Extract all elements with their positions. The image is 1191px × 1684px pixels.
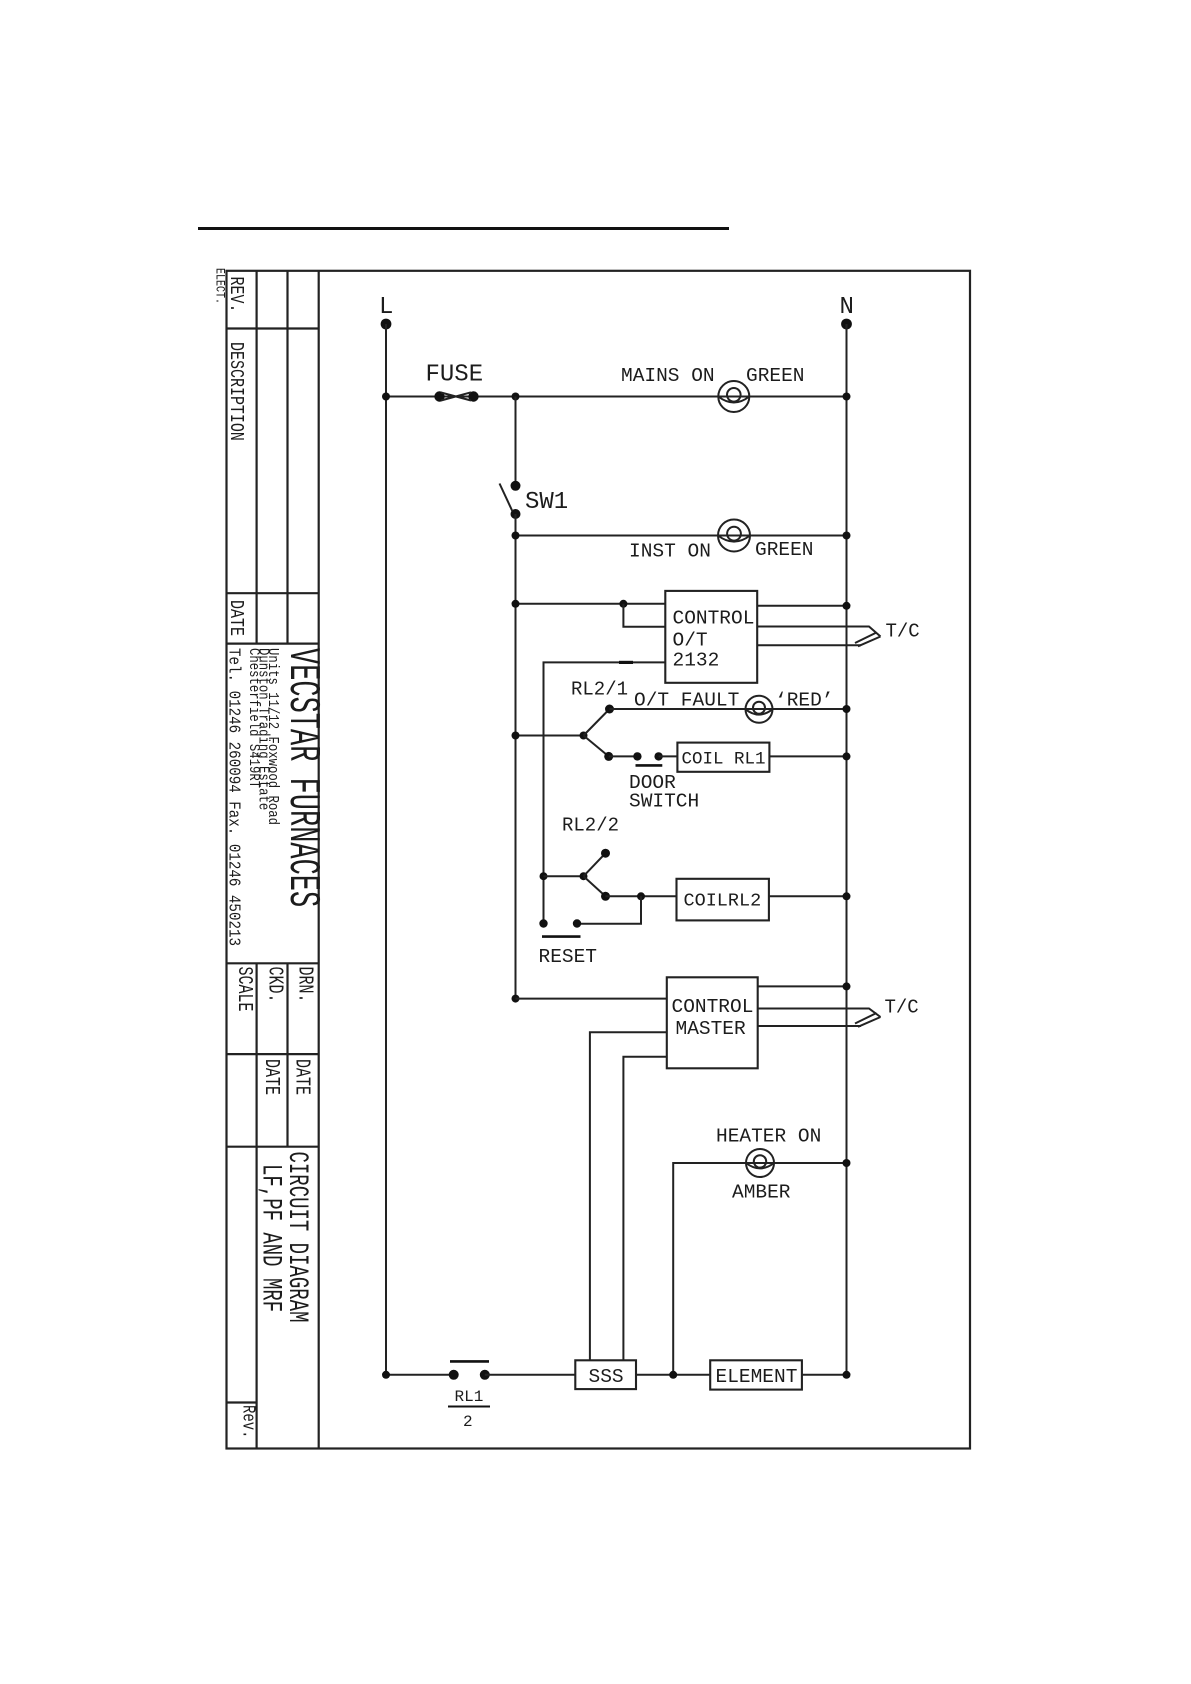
thermocouple connector T/C lower: [758, 1009, 881, 1027]
wire mains top line: [386, 396, 847, 398]
wire RL1 to SSS: [485, 1374, 576, 1376]
svg-text:INST ON: INST ON: [629, 541, 711, 563]
svg-text:RL1: RL1: [455, 1388, 484, 1406]
wire heater lamp line: [673, 1163, 846, 1375]
junction mains-N: [843, 393, 851, 401]
junction sw1rail-inst: [512, 532, 520, 540]
junction heater-N: [843, 1159, 851, 1167]
contact RL1/2: [449, 1361, 490, 1379]
svg-text:GREEN: GREEN: [755, 539, 814, 561]
svg-text:CKD.: CKD.: [263, 967, 286, 1003]
wire SSS to element: [636, 1374, 710, 1376]
svg-text:RL2/2: RL2/2: [562, 815, 619, 837]
wire RL2/2 throw to coil RL2: [606, 895, 677, 897]
lamp INST ON symbol: [718, 520, 750, 552]
junction controlot feed tee: [619, 600, 627, 608]
svg-text:HEATER ON: HEATER ON: [716, 1126, 821, 1148]
wire reset loop: [577, 896, 641, 923]
title block horizontals: [227, 329, 319, 1403]
svg-text:DESCRIPTION: DESCRIPTION: [224, 342, 245, 441]
drawing frame: [227, 271, 971, 1449]
svg-text:O/T: O/T: [673, 630, 708, 652]
controller U2 CONTROL MASTER box: [667, 977, 758, 1068]
junction sw1rail-rl21: [512, 732, 520, 740]
svg-text:Tel. 01246 260094 Fax. 01246: Tel. 01246 260094 Fax. 01246 450213: [224, 648, 244, 946]
wire master output 2 down to SSS: [623, 1057, 666, 1361]
svg-text:DATE: DATE: [259, 1059, 282, 1095]
lamp HEATER ON symbol: [746, 1149, 774, 1177]
svg-text:SW1: SW1: [525, 489, 568, 516]
svg-text:REV.: REV.: [224, 277, 245, 313]
wire master output 1 down to SSS: [590, 1032, 667, 1360]
junction L-mains: [382, 393, 390, 401]
junction mains-SW1drop: [512, 393, 520, 401]
wire controlot to N: [757, 605, 846, 607]
wire bottom line L to RL1: [386, 1374, 454, 1376]
node N terminal dot: [841, 319, 852, 330]
junction sw1rail end at control master: [512, 995, 520, 1003]
title underline: [198, 227, 729, 230]
svg-text:2132: 2132: [673, 650, 720, 672]
title block verticals: [257, 271, 319, 1449]
door switch label: [629, 772, 699, 813]
svg-text:SSS: SSS: [589, 1366, 624, 1388]
svg-text:2: 2: [463, 1413, 473, 1431]
SSS box: [575, 1360, 636, 1389]
junction otfault-N: [843, 705, 851, 713]
svg-text:‘RED’: ‘RED’: [775, 690, 834, 712]
controller U1 text: [673, 608, 755, 672]
wire control master to N: [758, 985, 847, 987]
wire SW1 drop: [515, 397, 517, 486]
junction L-bottom: [382, 1371, 390, 1379]
coil RL2 box: [677, 879, 769, 921]
reset pushbutton: [539, 919, 581, 936]
svg-text:L: L: [379, 294, 393, 321]
contact RL2/2 changeover: [580, 849, 611, 901]
svg-text:COIL RL1: COIL RL1: [682, 750, 766, 770]
junction controlot-N: [843, 602, 851, 610]
svg-text:N: N: [840, 294, 854, 321]
junction bottom-N: [843, 1371, 851, 1379]
svg-text:ELEMENT: ELEMENT: [716, 1366, 798, 1388]
wire coil RL1 to N: [769, 755, 846, 757]
contact RL2/1 changeover: [580, 705, 615, 761]
wire controlot output down to RL2 coil circuit: [544, 662, 666, 923]
wire feed to RL2/2 common: [544, 875, 584, 877]
svg-text:DATE: DATE: [290, 1059, 313, 1095]
svg-text:VECSTAR FURNACES: VECSTAR FURNACES: [278, 648, 327, 907]
wire N rail: [846, 324, 848, 1375]
svg-text:RESET: RESET: [539, 946, 598, 968]
contact RL1/2 label: [455, 1388, 484, 1431]
wire L rail: [385, 324, 387, 1375]
wire control master input: [516, 998, 667, 1000]
svg-text:SCALE: SCALE: [232, 967, 255, 1012]
junction coilrl1-N: [843, 752, 851, 760]
wire SW1 lower rail: [515, 514, 517, 999]
svg-text:RL2/1: RL2/1: [571, 679, 628, 701]
switch SW1: [500, 481, 521, 519]
wire controlot second input: [623, 604, 665, 627]
svg-text:FUSE: FUSE: [426, 362, 484, 389]
svg-text:Chesterfield S419RT: Chesterfield S419RT: [245, 648, 261, 788]
wire door switch to coil RL1: [659, 755, 678, 757]
junction sw1rail-controlot: [512, 600, 520, 608]
svg-text:MAINS ON: MAINS ON: [621, 365, 715, 387]
junction master-N: [843, 982, 851, 990]
junction rl2coil rail tee: [540, 872, 548, 880]
svg-text:Rev.: Rev.: [238, 1405, 259, 1439]
wire stub tick on output: [619, 661, 633, 664]
contact RL1/2 label divider: [448, 1406, 490, 1408]
lamp O/T FAULT symbol: [746, 696, 773, 723]
door switch contact: [633, 752, 663, 765]
node L terminal dot: [381, 319, 392, 330]
wire O/T fault line: [610, 708, 847, 710]
wire RL2/1 NO throw to door switch: [609, 755, 638, 757]
controller U2 text: [672, 996, 754, 1040]
coil RL1 box: [677, 743, 769, 772]
junction reset branch: [637, 892, 645, 900]
element box: [710, 1360, 802, 1389]
controller U1 CONTROL O/T 2132 box: [665, 591, 757, 683]
svg-text:LF,PF AND MRF: LF,PF AND MRF: [254, 1164, 285, 1312]
svg-text:CONTROL: CONTROL: [673, 608, 755, 630]
thermocouple connector T/C upper: [757, 627, 880, 647]
svg-text:T/C: T/C: [886, 621, 920, 643]
lamp MAINS ON symbol: [718, 381, 749, 412]
fuse F1 symbol: [434, 391, 478, 401]
svg-text:COILRL2: COILRL2: [684, 891, 762, 912]
wire element to N: [802, 1374, 847, 1376]
svg-text:AMBER: AMBER: [732, 1182, 791, 1204]
wire coil RL2 to N: [769, 895, 847, 897]
svg-text:SWITCH: SWITCH: [629, 791, 699, 813]
wire feed to RL2/1 common: [516, 735, 584, 737]
svg-text:O/T FAULT: O/T FAULT: [634, 690, 739, 712]
svg-text:DRN.: DRN.: [293, 967, 316, 1003]
svg-text:MASTER: MASTER: [676, 1018, 747, 1040]
junction heater drop-bottom: [669, 1371, 677, 1379]
junction inst-N: [843, 532, 851, 540]
svg-text:GREEN: GREEN: [746, 365, 805, 387]
wire control-ot feed line: [516, 603, 666, 605]
junction coilrl2-N: [843, 892, 851, 900]
wire inst-on line: [516, 535, 847, 537]
svg-text:T/C: T/C: [885, 997, 919, 1019]
svg-text:DATE: DATE: [224, 600, 245, 636]
svg-text:CONTROL: CONTROL: [672, 996, 754, 1018]
